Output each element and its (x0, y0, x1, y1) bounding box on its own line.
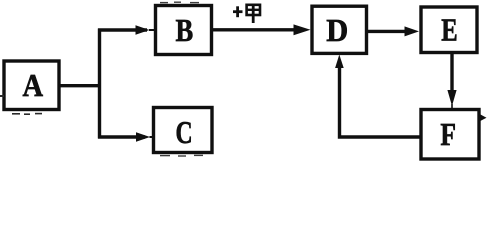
node C (154, 108, 213, 153)
scan speckles above B (160, 1, 199, 3)
wire branch to C with arrow (98, 132, 152, 142)
wire F feedback to D with arrow (335, 55, 421, 138)
wire branch to B with arrow (98, 25, 154, 35)
label +甲 jia glyph (246, 4, 261, 24)
svg-text:F: F (440, 117, 456, 152)
svg-text:E: E (441, 14, 457, 49)
node A (4, 61, 59, 110)
scan tick at left edge (0, 95, 4, 97)
svg-text:C: C (176, 116, 193, 151)
node E (421, 7, 477, 53)
wire B to D with arrow (212, 24, 311, 35)
scan speckles below A (12, 113, 42, 116)
wire E down to F with arrow (447, 53, 456, 109)
label +甲 plus sign (233, 6, 243, 17)
wire branch vertical (98, 29, 101, 139)
node D (312, 6, 367, 53)
node B (156, 6, 212, 55)
node F (421, 110, 479, 160)
svg-text:A: A (23, 67, 44, 103)
scan speckles below C (160, 154, 203, 157)
wire D to E with arrow (367, 26, 420, 36)
svg-text:D: D (326, 12, 348, 48)
tick mark at right edge of F (481, 115, 487, 121)
wire A to branch point (58, 84, 102, 87)
svg-text:B: B (175, 14, 193, 49)
